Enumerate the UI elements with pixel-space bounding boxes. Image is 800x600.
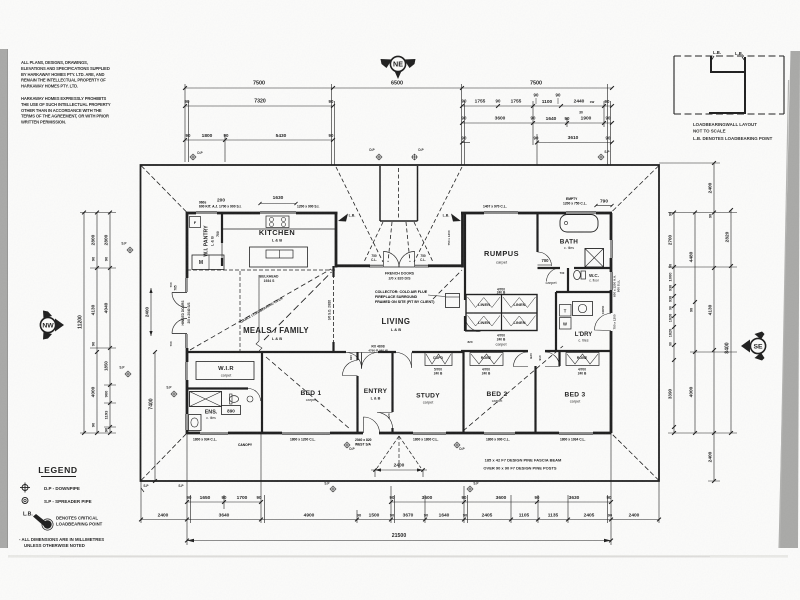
exterior wall left [186, 212, 189, 278]
right dim column 3 [713, 163, 715, 481]
top dimension row 4 right (3610) [537, 142, 612, 144]
exterior wall right [610, 213, 613, 240]
DP symbols at bottom wall [345, 443, 350, 448]
exterior wall bottom [187, 432, 200, 435]
left gray scan strip [0, 49, 8, 548]
bed2 robe recess [470, 353, 503, 366]
right dim connector ticks [668, 212, 737, 214]
hall walls at bed3 [558, 351, 560, 366]
ENS-bed1 wall [261, 352, 263, 433]
top dimension row 4 left (1800 5430) [185, 139, 333, 141]
porch steps 2400 dim [377, 436, 399, 468]
hip line top-right [611, 166, 659, 213]
entry-study door arc bottom [377, 412, 393, 428]
entry double doors from meals hall [346, 353, 362, 369]
bed2 dashed diagonal [463, 346, 563, 431]
pantry fixture [190, 217, 201, 228]
bed2-bed3 wall [534, 366, 536, 433]
window labels top wall [199, 197, 587, 209]
kitchen return bench with M [192, 255, 224, 270]
bottom dim row 2 [141, 519, 659, 521]
loadbearing wall layout diagram [674, 50, 784, 114]
left wall french doors opening onto verandah [172, 293, 187, 308]
bottom SP symbols [331, 487, 336, 492]
ens vanity [189, 415, 202, 431]
DP symbols top [191, 155, 196, 160]
front entry door arc [364, 417, 380, 433]
right dim column 2 [694, 213, 696, 434]
wc door arc [547, 268, 561, 282]
rumpus left wall [464, 213, 466, 300]
top dimension row 3 right (3600 1640 1900) [462, 122, 612, 124]
top dimension extension lines [184, 84, 186, 162]
bed2 bed3 hall doors [514, 352, 529, 367]
gray strip edge lines [7, 49, 8, 548]
left wall ens window [186, 414, 188, 430]
living dashed diagonal [433, 270, 462, 299]
hip line bottom-right [611, 433, 659, 481]
kitchen island bench [250, 247, 308, 267]
right dim column 1 [673, 213, 675, 434]
right wall windows [610, 240, 612, 258]
bottom windows [200, 432, 228, 434]
pantry wall [221, 213, 223, 243]
bed1 door arc [343, 361, 358, 376]
WIR robe box [196, 362, 254, 380]
laundry trough [573, 302, 593, 316]
bulkhead line [239, 271, 241, 351]
top dimension row 2 left (7320) [185, 105, 333, 107]
legend SP symbol [22, 498, 28, 504]
exterior wall top-right (rumpus/bath) [461, 212, 484, 215]
bottom dim extension lines [140, 481, 142, 523]
linen door zigzags [468, 297, 501, 308]
study-bed2 wall [462, 352, 464, 433]
laundry T and W appliances [560, 305, 572, 317]
hip line bottom-left [141, 433, 187, 481]
bottom dim row 3 (21500) [187, 540, 611, 542]
legend DP symbol [22, 485, 28, 491]
wc toilet [574, 270, 581, 279]
bath-wc wall [538, 267, 561, 269]
right dim column 4 [730, 210, 732, 433]
bath window top [566, 212, 596, 214]
right dim top connector [659, 162, 720, 164]
wc left wall [567, 268, 569, 291]
exterior wall top-left (kitchen side) [186, 212, 196, 215]
dry door arc on right wall [595, 314, 612, 331]
left 7400 dim [154, 352, 156, 481]
left dim column 2 [96, 213, 98, 434]
compass NW (left) [40, 311, 64, 340]
porch recess left wall [335, 212, 338, 268]
dry door opening right wall [610, 313, 612, 331]
top dimension row 1 (7500 6500 7500) [185, 87, 612, 89]
french doors at porch recess [384, 252, 400, 268]
left dim overall 11200 [83, 213, 85, 434]
bottom dim row 1 right [391, 501, 611, 503]
bed1 dashed diagonal [266, 357, 350, 429]
WIR/ENS wall [187, 387, 248, 389]
bath door arc [538, 252, 552, 266]
left dim connector ticks [80, 212, 116, 214]
bed3 robe recess [566, 353, 599, 366]
left SP symbols [128, 248, 133, 253]
compass SE (right) [741, 332, 766, 361]
living niche box [446, 294, 460, 308]
meals dashed diagonal A with label [190, 269, 331, 350]
left dim column 3 [109, 213, 111, 434]
verandah roof outline [141, 165, 660, 481]
left wall french door sidelights [186, 278, 188, 292]
top dimension row 2 right (1755 1755 1100 2440) [462, 105, 612, 107]
ens toilet [229, 396, 238, 403]
entry-study wall [391, 352, 393, 412]
hall-dry wall [556, 291, 611, 293]
kitchen cooktop [266, 216, 289, 228]
middle wall (meals/bedrooms) [187, 351, 346, 353]
chimney [379, 166, 381, 221]
study cupboard recess [425, 353, 452, 366]
bottom dim row 1 left [187, 501, 261, 503]
right gray scan strip [779, 51, 800, 548]
left 2400 door dim [150, 288, 152, 336]
loadbearing layout caption [693, 122, 773, 141]
copyright notice text block [21, 60, 111, 125]
rumpus window top [484, 212, 518, 214]
ens shower [190, 392, 222, 407]
window labels bottom wall [193, 438, 586, 448]
compass NE (top) [381, 56, 416, 79]
rumpus-bath wall [536, 213, 538, 252]
kitchen overhead cupboard dashed line [187, 269, 336, 271]
ens door arc [248, 389, 261, 402]
porch sidelight windows [369, 264, 383, 266]
linen cupboards block [466, 295, 537, 331]
bath shower [585, 249, 604, 268]
page edge shadow bottom [8, 555, 788, 558]
study door arc [396, 353, 412, 369]
hip line top-left [141, 166, 187, 213]
LB arrows at recess corners [338, 214, 348, 222]
bed1-entry wall [356, 352, 358, 360]
window kitchen 1630 [260, 212, 296, 214]
bath tub [560, 215, 598, 233]
rumpus door arc [465, 316, 481, 332]
porch recess right wall [461, 212, 464, 268]
fireplace note [375, 290, 435, 304]
window W1 top [196, 212, 217, 214]
fireplace flue dashed projections [336, 167, 383, 262]
meals-living opening dashed [333, 268, 335, 352]
kitchen bench top [222, 228, 336, 230]
left wall WIR window [186, 362, 188, 380]
890 door box [222, 406, 241, 415]
porch recess bottom wall segments [336, 264, 370, 267]
middle wall right (bed2 bed3 robes) [461, 350, 528, 352]
